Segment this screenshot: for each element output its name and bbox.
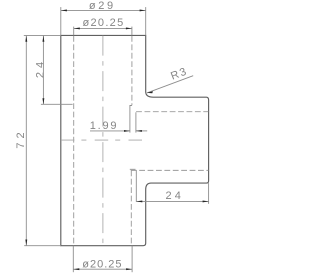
ext: dia20.25 top right	[131, 27, 133, 36]
dimension lines	[26, 10, 208, 269]
ext: lower step edge	[130, 168, 136, 170]
arrow dia29 left	[61, 9, 67, 11]
ext: dia20.25 top left	[73, 27, 75, 36]
dim line 24 branch	[136, 200, 208, 202]
svg-text:24: 24	[35, 58, 47, 78]
ext: dia29 left	[60, 7, 62, 35]
arrowheads	[25, 9, 208, 270]
svg-text:24: 24	[165, 190, 184, 202]
ext: 24 left counterbore depth	[41, 103, 73, 105]
hidden line: main bore left wall	[73, 36, 75, 246]
dim line 72	[25, 36, 27, 246]
arrow dia20.25 right	[126, 27, 132, 29]
ext: 24 branch right	[208, 183, 210, 204]
arrow 72 top	[25, 36, 27, 42]
leader R3	[147, 76, 193, 93]
arrow 24 branch left	[136, 200, 142, 202]
ext: bottom edge leftward (72 dim)	[24, 245, 61, 247]
arrow 24 left bottom	[42, 98, 44, 104]
arrow R3 leader	[147, 91, 153, 93]
arrow dia20.25 bottom right	[126, 268, 132, 270]
hidden line: main bore right wall lower	[130, 170, 132, 245]
arrow 72 bottom	[25, 240, 27, 246]
arrow 24 left top	[42, 36, 44, 42]
tee fitting outer profile	[61, 35, 209, 245]
dim line dia20.25 top	[74, 27, 132, 29]
arrow dia29 right	[140, 9, 146, 11]
ext: 1.99 left	[130, 106, 132, 133]
ext: dia20.25 bottom right	[131, 246, 133, 273]
centerline: branch horizontal axis	[61, 139, 145, 141]
hidden line: branch bore bottom wall	[131, 169, 209, 171]
svg-text:ø20.25: ø20.25	[82, 17, 124, 29]
ext: 1.99 right	[135, 112, 137, 132]
dim line dia20.25 bottom	[73, 268, 132, 270]
dim line 1.99 left part	[90, 130, 130, 132]
dim line 24 left	[42, 36, 44, 105]
svg-text:ø29: ø29	[89, 0, 116, 12]
arrow 1.99 right (points left)	[136, 130, 142, 132]
arrow 1.99 left (points right)	[124, 130, 130, 132]
ext: 24 branch left	[135, 170, 137, 202]
hidden line: branch bore top wall	[136, 111, 208, 113]
svg-text:72: 72	[15, 128, 27, 148]
svg-text:1.99: 1.99	[90, 120, 119, 132]
svg-text:ø20.25: ø20.25	[82, 258, 122, 270]
arrow 24 branch right	[203, 200, 209, 202]
dim line 1.99 right part	[136, 130, 147, 132]
hidden line: main bore right wall upper	[131, 36, 133, 105]
ext: top edge leftward (72/24 dims)	[24, 34, 61, 36]
arrow dia20.25 left	[74, 27, 80, 29]
ext: dia20.25 bottom left	[72, 246, 74, 273]
centerline: vertical axis	[102, 36, 104, 246]
arrow dia20.25 bottom left	[73, 268, 79, 270]
extension lines	[24, 7, 209, 272]
ext: dia29 right	[145, 7, 147, 35]
dim line dia29	[61, 9, 146, 11]
